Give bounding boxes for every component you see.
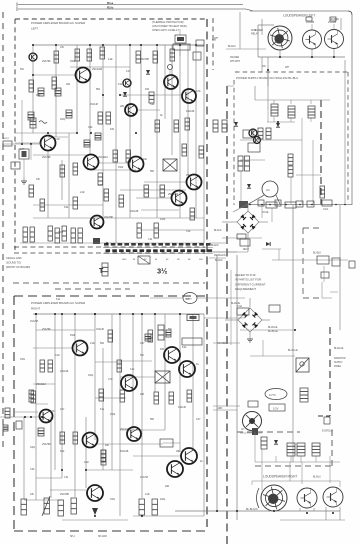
svg-text:REQUIREMENT: REQUIREMENT xyxy=(235,287,256,291)
svg-text:RD-RED: RD-RED xyxy=(230,56,239,59)
svg-text:BL-BLUE: BL-BLUE xyxy=(231,303,240,305)
svg-text:SIGNAL GND: SIGNAL GND xyxy=(6,256,22,260)
svg-text:2SC1344: 2SC1344 xyxy=(120,427,131,431)
svg-text:4.7k: 4.7k xyxy=(36,93,41,97)
svg-text:R1-a: R1-a xyxy=(107,1,114,5)
svg-text:(SOUND TO): (SOUND TO) xyxy=(6,261,21,265)
svg-text:2SA798: 2SA798 xyxy=(30,320,39,323)
svg-text:100p: 100p xyxy=(58,231,64,234)
svg-text:SP-1: SP-1 xyxy=(70,535,76,538)
svg-text:2.2k: 2.2k xyxy=(145,492,150,496)
svg-text:2SA798: 2SA798 xyxy=(140,57,149,61)
svg-text:LEFT: LEFT xyxy=(31,27,38,31)
svg-text:100: 100 xyxy=(160,347,165,351)
svg-text:100p: 100p xyxy=(160,498,166,501)
svg-text:100p: 100p xyxy=(88,374,94,377)
svg-text:B CIRCUIT: B CIRCUIT xyxy=(322,430,334,433)
svg-text:2.2k: 2.2k xyxy=(90,341,95,345)
svg-text:150k: 150k xyxy=(110,413,116,416)
svg-text:2SD188: 2SD188 xyxy=(328,21,337,24)
svg-text:POWER AMPLIFIER BOARD AC SUPER: POWER AMPLIFIER BOARD AC SUPER xyxy=(31,21,86,25)
svg-text:BL-BLK: BL-BLK xyxy=(313,252,321,255)
svg-text:3½: 3½ xyxy=(157,267,167,276)
svg-text:RD-RED: RD-RED xyxy=(254,29,263,32)
svg-text:RD-BLACK: RD-BLACK xyxy=(214,254,226,257)
svg-text:SUPPLY: SUPPLY xyxy=(334,361,343,364)
svg-text:100p: 100p xyxy=(160,218,166,221)
svg-text:REFER TO P.19: REFER TO P.19 xyxy=(235,273,256,277)
svg-text:GRN: GRN xyxy=(217,407,223,410)
svg-text:2SA798: 2SA798 xyxy=(42,60,51,63)
svg-text:1N4148: 1N4148 xyxy=(96,328,105,331)
svg-text:DIFFERENT CURRENT: DIFFERENT CURRENT xyxy=(235,282,266,286)
svg-text:OPEN 110°C CASE-17: OPEN 110°C CASE-17 xyxy=(152,28,179,32)
svg-text:150k: 150k xyxy=(118,166,124,169)
svg-text:WH-WHT: WH-WHT xyxy=(230,60,241,63)
svg-text:SAFETY: SAFETY xyxy=(185,298,193,301)
svg-text:WH: WH xyxy=(212,39,216,42)
svg-text:LOUDSPEAKER RIGHT: LOUDSPEAKER RIGHT xyxy=(263,475,297,479)
svg-text:150k: 150k xyxy=(70,60,76,63)
svg-text:1N4148: 1N4148 xyxy=(90,103,99,106)
svg-text:0.47: 0.47 xyxy=(196,418,201,421)
svg-text:AC: AC xyxy=(266,188,270,192)
svg-text:2.2k: 2.2k xyxy=(80,190,85,194)
svg-text:0.22: 0.22 xyxy=(55,137,60,141)
svg-text:2SA798: 2SA798 xyxy=(42,443,51,446)
svg-text:RIGHT: RIGHT xyxy=(31,307,40,311)
svg-text:100p: 100p xyxy=(60,118,66,121)
svg-text:100: 100 xyxy=(98,485,103,489)
svg-text:0.22: 0.22 xyxy=(84,460,89,464)
svg-text:2SC1344: 2SC1344 xyxy=(92,67,103,71)
svg-text:PANEL: PANEL xyxy=(334,365,342,368)
svg-text:1N4148: 1N4148 xyxy=(60,370,69,373)
svg-text:RD-RED: RD-RED xyxy=(217,342,226,345)
svg-text:1N4148: 1N4148 xyxy=(178,406,187,409)
svg-text:BLACK: BLACK xyxy=(215,259,223,262)
svg-text:(FRONT OF BOARD): (FRONT OF BOARD) xyxy=(6,265,30,269)
svg-text:4.7k: 4.7k xyxy=(108,377,113,381)
svg-text:POWER AMPLIFIER BOARD AC SUPER: POWER AMPLIFIER BOARD AC SUPER xyxy=(31,301,86,305)
svg-text:RD: RD xyxy=(262,65,266,68)
svg-text:100p: 100p xyxy=(30,446,36,449)
svg-text:SP-GND: SP-GND xyxy=(98,535,107,538)
svg-text:BL-BLU: BL-BLU xyxy=(313,476,321,479)
svg-text:0.47: 0.47 xyxy=(98,184,103,187)
svg-text:BL-BLUE: BL-BLUE xyxy=(334,347,344,350)
svg-text:2SA798: 2SA798 xyxy=(60,492,69,496)
svg-text:4.7k: 4.7k xyxy=(50,409,55,413)
svg-text:0.22: 0.22 xyxy=(55,353,60,357)
svg-text:100: 100 xyxy=(145,87,150,91)
svg-text:4.7k: 4.7k xyxy=(196,89,201,93)
svg-text:BL-BLACK: BL-BLACK xyxy=(246,507,258,511)
svg-text:0.47: 0.47 xyxy=(126,70,131,73)
svg-text:0.77V: 0.77V xyxy=(269,393,276,397)
svg-text:AC: AC xyxy=(241,428,245,431)
svg-text:0.47: 0.47 xyxy=(140,342,145,345)
svg-text:2.2k: 2.2k xyxy=(108,57,113,61)
svg-text:BLACK: BLACK xyxy=(214,229,222,232)
svg-text:FUSE: FUSE xyxy=(262,211,269,214)
svg-text:BLACK: BLACK xyxy=(211,244,219,247)
svg-text:2SA798: 2SA798 xyxy=(140,476,149,479)
svg-text:GND: GND xyxy=(122,259,127,261)
svg-text:2SC1112: 2SC1112 xyxy=(36,382,46,386)
svg-text:220: 220 xyxy=(140,392,145,396)
svg-text:220: 220 xyxy=(66,82,71,86)
svg-text:150k: 150k xyxy=(70,334,76,337)
svg-text:1N4148: 1N4148 xyxy=(120,450,129,453)
svg-text:0.2V: 0.2V xyxy=(273,407,279,411)
svg-text:BL-BLUE: BL-BLUE xyxy=(268,326,278,329)
svg-text:2SA798: 2SA798 xyxy=(42,328,51,331)
svg-text:IN PARTS LIST FOR: IN PARTS LIST FOR xyxy=(235,278,262,282)
svg-text:R1-b: R1-b xyxy=(107,5,114,9)
svg-text:RECT: RECT xyxy=(243,249,250,251)
svg-text:RADIATOR: RADIATOR xyxy=(334,357,346,360)
svg-text:1N4148: 1N4148 xyxy=(130,210,139,213)
svg-text:100: 100 xyxy=(110,127,115,131)
svg-text:2SA798: 2SA798 xyxy=(104,215,113,219)
svg-text:220: 220 xyxy=(120,104,125,108)
svg-text:POWER SUPPLY BOARD NO.SWH-152: POWER SUPPLY BOARD NO.SWH-152 BL-BLU xyxy=(236,76,298,80)
svg-text:BLACK: BLACK xyxy=(228,45,236,48)
svg-text:BL-BLUE: BL-BLUE xyxy=(268,330,278,333)
svg-text:1N4148: 1N4148 xyxy=(186,110,195,113)
svg-text:CN-1: CN-1 xyxy=(323,208,329,211)
svg-text:2SD188: 2SD188 xyxy=(306,21,315,24)
svg-text:WH: WH xyxy=(285,66,289,69)
svg-text:2SC1344: 2SC1344 xyxy=(168,192,179,196)
svg-text:2SC1112: 2SC1112 xyxy=(98,155,108,159)
svg-text:2SA798: 2SA798 xyxy=(42,156,51,159)
svg-text:INPUT: INPUT xyxy=(3,138,10,140)
svg-text:T-3A: T-3A xyxy=(237,305,242,308)
svg-text:220: 220 xyxy=(165,484,170,488)
